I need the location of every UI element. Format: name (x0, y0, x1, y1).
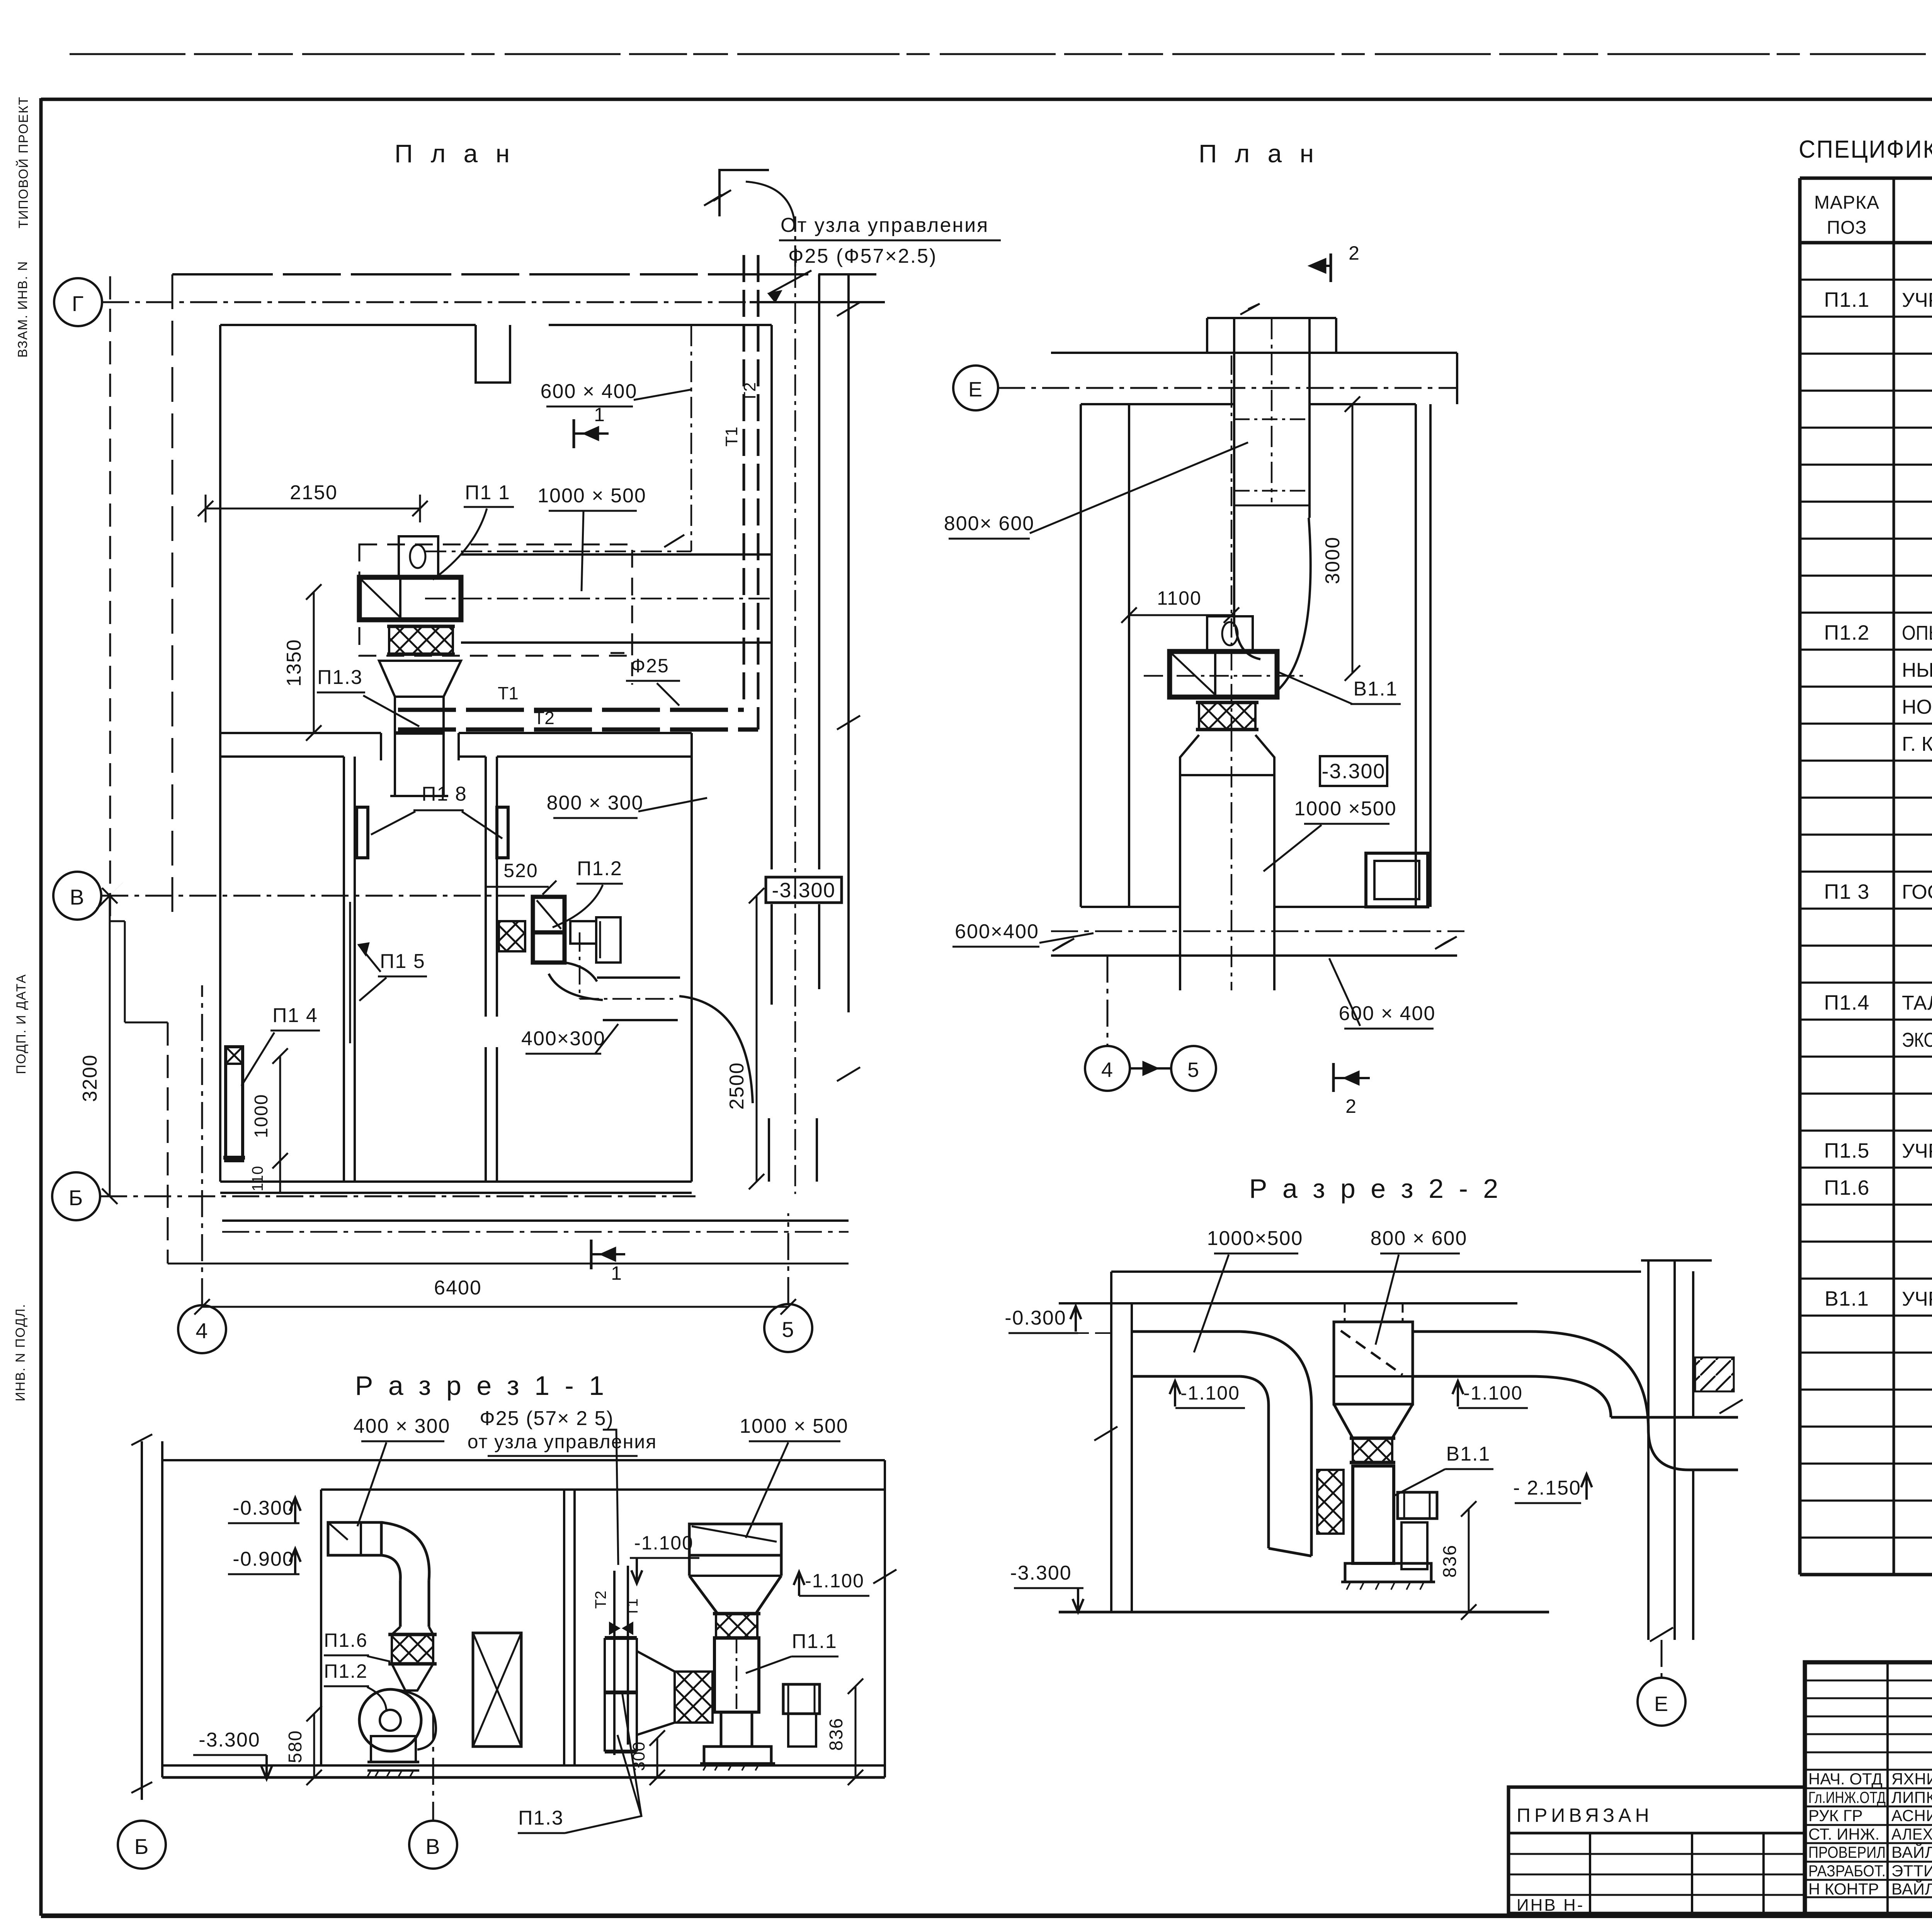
right duct run razrez2 (1413, 1330, 1530, 1333)
svg-text:В: В (425, 1834, 440, 1859)
svg-text:-0.300: -0.300 (1005, 1307, 1066, 1329)
svg-text:П1 8: П1 8 (422, 783, 467, 805)
svg-text:УЧРЕЖДЕНИЕ УЮ-400/4: УЧРЕЖДЕНИЕ УЮ-400/4 (1902, 289, 1932, 311)
svg-text:-1.100: -1.100 (634, 1532, 694, 1554)
flex hatched left of fan razrez2 (1317, 1470, 1344, 1534)
right elbow S razrez2 (1530, 1332, 1648, 1430)
svg-text:1000 × 500: 1000 × 500 (537, 485, 646, 507)
svg-text:Г: Г (72, 291, 84, 316)
sump box plan2 (1366, 853, 1428, 907)
axis 5 circle plan (764, 1304, 812, 1352)
right wall shaft razrez2 (1647, 1260, 1650, 1640)
heater box with X razrez (473, 1633, 521, 1747)
dim 300 (656, 1738, 658, 1777)
flex above fan razrez2 (1353, 1438, 1392, 1463)
axis E line plan (998, 387, 1457, 389)
svg-text:ВАЙЛЬ: ВАЙЛЬ (1891, 1843, 1932, 1861)
svg-text:МАРКА: МАРКА (1814, 192, 1879, 213)
fan P1.1 lower box (721, 1712, 752, 1747)
sheet frame (39, 98, 43, 1916)
svg-text:П1 4: П1 4 (272, 1004, 318, 1027)
fan V1.1 flex hatched plan (1199, 702, 1255, 730)
svg-text:П1.2: П1.2 (577, 857, 622, 880)
fan P1.2 scroll (359, 1689, 421, 1751)
svg-text:Т1: Т1 (498, 683, 519, 703)
svg-text:5: 5 (1187, 1058, 1200, 1082)
P1.2 discharge elbow 400x300 (565, 963, 597, 981)
svg-text:ТАЛДЫ-КУРГАНСКИЙ: ТАЛДЫ-КУРГАНСКИЙ (1902, 992, 1932, 1014)
svg-text:РУК ГР: РУК ГР (1808, 1806, 1863, 1825)
duct to control node elbow above wall (794, 216, 796, 267)
axis V circle razrez (409, 1821, 457, 1869)
svg-text:НАЧ. ОТД: НАЧ. ОТД (1808, 1770, 1883, 1788)
fan P1.1 box razrez (714, 1638, 759, 1712)
dim 836 razrez1 (855, 1686, 857, 1777)
svg-text:-1.100: -1.100 (805, 1570, 864, 1592)
svg-text:Т1: Т1 (722, 427, 741, 446)
svg-text:3200: 3200 (79, 1054, 101, 1102)
dim 2500 (756, 896, 758, 1182)
duct 400x300 east from P1.2 (597, 976, 680, 979)
svg-text:АСНИНА: АСНИНА (1891, 1806, 1932, 1825)
svg-text:П1.4: П1.4 (1824, 991, 1870, 1014)
section mark 2 top (1330, 253, 1332, 282)
damper P1.4 (226, 1047, 243, 1161)
svg-text:ТИПОВОЙ ПРОЕКТ: ТИПОВОЙ ПРОЕКТ (16, 96, 31, 228)
drop duct razrez2 (1267, 1405, 1270, 1548)
svg-text:П1.2: П1.2 (1824, 621, 1870, 645)
T1 T2 riser pipes (743, 255, 745, 707)
svg-text:В: В (70, 885, 85, 909)
axis 5 line plan (787, 1213, 789, 1304)
level -3.300 boxed (1320, 756, 1387, 786)
svg-text:ЛИПКИНД: ЛИПКИНД (1891, 1788, 1932, 1806)
interior wall 1 (343, 757, 345, 1182)
P1.1 hopper razrez (689, 1524, 781, 1555)
outer wall dash line (172, 274, 173, 921)
svg-text:ЭТТИНГЕР: ЭТТИНГЕР (1891, 1862, 1932, 1880)
axis 4 circle plan2 (1085, 1046, 1130, 1091)
partition duct opening jambs (380, 733, 382, 760)
svg-text:Е: Е (968, 378, 983, 401)
grille P1.8 on wall1 (357, 807, 368, 858)
axis G circle (54, 278, 102, 326)
svg-text:1: 1 (594, 404, 605, 425)
T1 T2 risers razrez (613, 1571, 616, 1755)
dim 1350 (313, 592, 315, 733)
elbow arc to shaft (679, 996, 753, 1103)
dim 2150 (206, 508, 420, 510)
fan P1.1 base razrez (704, 1747, 771, 1764)
section mark 2 bottom (1332, 1063, 1335, 1092)
top perforation dashed line (70, 53, 1932, 55)
P1.1 flex hatched razrez (716, 1614, 757, 1638)
svg-text:П1.1: П1.1 (792, 1630, 837, 1653)
fan P1.1 transition (379, 661, 461, 697)
grille P1.8 on wall2 (497, 807, 508, 858)
svg-text:От узла управления: От узла управления (781, 214, 989, 236)
axis B circle razrez bottom (118, 1821, 166, 1869)
svg-text:1350: 1350 (283, 639, 305, 687)
svg-text:ОПЫТНО-ЭКСПЕРИМЕНТАЛЬ-: ОПЫТНО-ЭКСПЕРИМЕНТАЛЬ- (1902, 622, 1932, 645)
P1.2 inlet cone (392, 1664, 433, 1690)
svg-text:ГОСТ 7201-80*: ГОСТ 7201-80* (1902, 881, 1932, 903)
middle plan right wall (1415, 404, 1417, 907)
P1.2 exhaust elbow (381, 1522, 429, 1580)
axis E circle razrez2 (1638, 1678, 1685, 1726)
svg-text:ВАЙЛЬ: ВАЙЛЬ (1891, 1879, 1932, 1898)
shaft elbow to fan (1236, 627, 1260, 659)
suction duct razrez2 (1132, 1330, 1240, 1333)
axis V line razrez (432, 1714, 434, 1821)
svg-text:-1.100: -1.100 (1180, 1382, 1240, 1404)
T2 pipe horizontal (398, 728, 758, 732)
svg-text:400 × 300: 400 × 300 (354, 1415, 451, 1437)
svg-text:от узла управления: от узла управления (468, 1431, 657, 1452)
top wall inner face (220, 324, 476, 326)
wall niche (476, 325, 510, 383)
P1.1 hopper cone (689, 1576, 781, 1614)
fan P1.1 flex connector hatched (389, 626, 453, 654)
duct east of P1.1 1000x500 (461, 553, 772, 556)
P1.6 flex hatched razrez (392, 1634, 433, 1664)
right boundary break razrez (884, 1460, 886, 1777)
svg-text:520: 520 (503, 860, 538, 881)
dim 580 (313, 1714, 315, 1777)
svg-text:Гл.ИНЖ.ОТД: Гл.ИНЖ.ОТД (1808, 1788, 1886, 1806)
left wall axis B razrez (141, 1441, 143, 1800)
svg-text:Б: Б (134, 1834, 150, 1859)
top wall outer line (172, 273, 885, 276)
svg-text:836: 836 (1440, 1544, 1460, 1578)
svg-text:2500: 2500 (726, 1062, 748, 1110)
svg-text:Б: Б (69, 1185, 84, 1210)
svg-text:2: 2 (1345, 1095, 1357, 1117)
svg-text:-3.300: -3.300 (199, 1729, 260, 1751)
svg-text:ЭКСПЕРИМЕНТАЛЬНЫЙ ЗАВОД: ЭКСПЕРИМЕНТАЛЬНЫЙ ЗАВОД (1902, 1029, 1932, 1051)
dashed service zone around P1.1 (359, 544, 632, 656)
svg-text:Е: Е (1654, 1692, 1669, 1716)
fan P1.2 motor (570, 921, 596, 944)
svg-text:6400: 6400 (434, 1277, 482, 1299)
axis V circle (53, 872, 101, 920)
svg-text:Т2: Т2 (592, 1591, 609, 1609)
hopper cone razrez2 (1334, 1404, 1413, 1438)
svg-text:ИНВ Н-: ИНВ Н- (1517, 1896, 1584, 1915)
dim 1000 (279, 1056, 281, 1161)
svg-text:2: 2 (1349, 242, 1360, 264)
top-right wall segment (750, 301, 885, 303)
dim 3000 (1352, 404, 1354, 673)
svg-text:1000 × 500: 1000 × 500 (740, 1415, 849, 1437)
svg-text:-3.300: -3.300 (1010, 1562, 1071, 1584)
svg-text:УЧРЕЖДЕНИЕ УЮ-400/4: УЧРЕЖДЕНИЕ УЮ-400/4 (1902, 1288, 1932, 1310)
svg-text:П1.6: П1.6 (1824, 1176, 1870, 1199)
svg-text:Ф25 (57× 2 5): Ф25 (57× 2 5) (480, 1407, 614, 1430)
razrez floor (162, 1764, 885, 1767)
svg-text:ПОЗ: ПОЗ (1827, 218, 1867, 238)
svg-text:800× 600: 800× 600 (944, 512, 1034, 535)
svg-text:СТ. ИНЖ.: СТ. ИНЖ. (1808, 1825, 1879, 1843)
svg-text:-3.300: -3.300 (772, 879, 835, 902)
svg-text:П1.6: П1.6 (324, 1629, 367, 1651)
svg-text:600 × 400: 600 × 400 (541, 380, 638, 403)
P1.1 motor razrez (783, 1684, 820, 1714)
fan unit P1.1 fan box (359, 577, 461, 620)
svg-text:В1.1: В1.1 (1446, 1443, 1491, 1465)
svg-text:П1 5: П1 5 (380, 950, 425, 973)
duct 400x300 centerline (579, 932, 581, 999)
svg-text:В1.1: В1.1 (1825, 1287, 1869, 1310)
partition wall below upper room (220, 732, 381, 734)
dim 836 razrez2 (1468, 1509, 1470, 1612)
razrez ceiling (162, 1459, 885, 1461)
motor razrez2 (1398, 1492, 1437, 1519)
axis 4 circle plan (178, 1305, 226, 1353)
svg-text:Т1: Т1 (624, 1599, 641, 1617)
svg-text:П1.5: П1.5 (1824, 1139, 1870, 1162)
svg-text:400×300: 400×300 (521, 1027, 605, 1050)
duct south from P1.1 (394, 697, 396, 796)
svg-text:УЧРЕЖДЕНИЕ УС-319/56*: УЧРЕЖДЕНИЕ УС-319/56* (1902, 1140, 1932, 1162)
svg-text:Г. КИЕВ: Г. КИЕВ (1902, 733, 1932, 755)
svg-text:П1.2: П1.2 (324, 1660, 367, 1682)
duct 600x400 centerline horizontal (425, 551, 691, 553)
svg-text:1000×500: 1000×500 (1207, 1227, 1303, 1250)
level -3.300 plan1 boxed (766, 877, 842, 903)
corridor lines (222, 1219, 849, 1222)
masonry hatch patch razrez2 (1695, 1357, 1734, 1391)
svg-text:-0.300: -0.300 (233, 1497, 294, 1519)
fan P1.2 base (371, 1736, 416, 1762)
lower horizontal duct razrez2 (1611, 1416, 1738, 1419)
svg-text:СПЕЦИФИКАЦИЯ ОТОПИТЕЛЬНО-ВЕНТ: СПЕЦИФИКАЦИЯ ОТОПИТЕЛЬНО-ВЕНТИЛЯЦИОННЫХ … (1799, 135, 1932, 163)
middle wall razrez (563, 1490, 565, 1765)
razrez2 ceiling (1111, 1270, 1641, 1273)
break marks right duct razrez2 (1719, 1400, 1743, 1413)
bottom wall of rooms (220, 1180, 692, 1183)
right outer wall (847, 274, 850, 1012)
svg-text:5: 5 (782, 1317, 794, 1342)
razrez2 floor (1059, 1611, 1549, 1614)
svg-text:-3.300: -3.300 (1321, 760, 1385, 783)
svg-text:110: 110 (249, 1166, 266, 1192)
svg-text:800 × 600: 800 × 600 (1371, 1227, 1468, 1250)
fan P1.2 flex hatched (499, 921, 525, 951)
svg-text:-1.100: -1.100 (1463, 1382, 1523, 1404)
section mark 1 upper (573, 419, 575, 448)
svg-text:Т2: Т2 (534, 708, 554, 728)
fan P1.2 scroll box (533, 897, 565, 932)
dim 3200 vertical (109, 896, 111, 1196)
exhaust shaft 800x600 (1233, 353, 1235, 627)
svg-text:Т2: Т2 (740, 382, 759, 402)
fan V1.1 box plan (1170, 651, 1277, 697)
fan V1.1 motor box plan (1207, 616, 1253, 651)
P1.2 vertical duct (399, 1580, 402, 1627)
svg-text:В1.1: В1.1 (1354, 678, 1398, 700)
svg-text:1: 1 (611, 1262, 622, 1284)
svg-text:1100: 1100 (1157, 587, 1202, 609)
svg-text:П1 1: П1 1 (465, 481, 510, 504)
axis G line (102, 301, 885, 303)
interior wall 2 (485, 757, 487, 1017)
shaft centerline (794, 267, 796, 1194)
fan V1.1 axis dashdot (1144, 675, 1306, 677)
middle plan bottom wall (1081, 906, 1180, 908)
svg-text:Н КОНТР: Н КОНТР (1808, 1880, 1879, 1898)
left boundary dashed (109, 276, 111, 921)
svg-text:П1 3: П1 3 (1824, 880, 1870, 903)
suction duct elbow down (1240, 1332, 1311, 1405)
axis B circle (52, 1172, 100, 1220)
fan unit P1.1 motor box (399, 536, 438, 577)
duct box P1.2 exhaust top (328, 1522, 381, 1555)
axis 5 circle plan2 with arrow (1171, 1046, 1216, 1091)
svg-text:ПРОВЕРИЛ: ПРОВЕРИЛ (1808, 1843, 1886, 1861)
fan V1.1 box razrez2 (1353, 1466, 1394, 1563)
svg-text:Ф25: Ф25 (631, 655, 669, 677)
svg-text:П л а н: П л а н (1199, 139, 1319, 168)
svg-text:4: 4 (196, 1318, 208, 1343)
spec table grid (1800, 177, 1932, 180)
filter hatched razrez (675, 1672, 713, 1723)
svg-text:4: 4 (1101, 1058, 1114, 1082)
svg-text:П л а н: П л а н (395, 139, 515, 168)
middle plan left wall (1080, 404, 1082, 907)
shaft box razrez2 (1334, 1322, 1413, 1404)
svg-text:РАЗРАБОТ.: РАЗРАБОТ. (1808, 1862, 1886, 1880)
svg-text:600×400: 600×400 (955, 920, 1039, 943)
axis 4 line plan (201, 985, 203, 1305)
shaft stubs above wall (1206, 318, 1208, 353)
vertical duct 600x400 shaft (770, 325, 773, 869)
razrez2 left wall (1110, 1272, 1112, 1612)
svg-text:П1.3: П1.3 (518, 1807, 564, 1829)
svg-text:- 2.150: - 2.150 (1513, 1477, 1581, 1499)
left wall inner face (219, 325, 221, 1182)
P1.1 inlet cone razrez (637, 1651, 675, 1735)
T1 pipe horizontal (398, 708, 744, 712)
privyazan table (1509, 1787, 1805, 1913)
svg-text:300: 300 (629, 1742, 648, 1771)
svg-text:ВЗАМ. ИНВ. N: ВЗАМ. ИНВ. N (15, 260, 30, 357)
axis B line (100, 1196, 696, 1197)
middle plan top wall (1051, 352, 1457, 354)
dim 6400 horizontal (202, 1306, 788, 1308)
svg-text:-0.900: -0.900 (233, 1548, 294, 1570)
svg-text:Р а з р е з 2 - 2: Р а з р е з 2 - 2 (1249, 1173, 1502, 1204)
svg-text:АЛЕХНОВИЧ: АЛЕХНОВИЧ (1891, 1825, 1932, 1843)
svg-text:600 × 400: 600 × 400 (1339, 1002, 1436, 1025)
svg-text:П1.1: П1.1 (1824, 288, 1870, 311)
fan base razrez2 (1345, 1563, 1431, 1582)
shaft centerline (1271, 318, 1273, 502)
svg-text:1000 ×500: 1000 ×500 (1294, 798, 1396, 820)
svg-text:Ф25 (Ф57×2.5): Ф25 (Ф57×2.5) (788, 245, 937, 267)
axis E circle plan (953, 366, 998, 410)
duct south from V1.1 (1180, 735, 1199, 990)
svg-text:ИНВ. N ПОДЛ.: ИНВ. N ПОДЛ. (13, 1303, 28, 1401)
svg-text:2150: 2150 (290, 481, 338, 504)
axis V line (101, 895, 564, 897)
section mark 1 lower (590, 1240, 593, 1269)
shaft joint marks (1234, 418, 1310, 420)
duct 600x400 centerline vertical (690, 325, 692, 551)
svg-text:НОГО ОБОРУДОВАНИЯ: НОГО ОБОРУДОВАНИЯ (1902, 696, 1932, 718)
svg-text:800 × 300: 800 × 300 (547, 792, 644, 814)
svg-text:ПРИВЯЗАН: ПРИВЯЗАН (1517, 1804, 1653, 1826)
svg-text:1000: 1000 (251, 1094, 272, 1138)
right outer wall break marks (837, 302, 860, 316)
title block outer box (1805, 1662, 1932, 1914)
svg-text:П1.3: П1.3 (317, 666, 363, 689)
svg-text:ЯХНИС: ЯХНИС (1891, 1770, 1932, 1788)
svg-text:ПОДП. И ДАТА: ПОДП. И ДАТА (14, 974, 29, 1074)
svg-text:580: 580 (285, 1730, 306, 1763)
svg-text:НЫЙ ЗАВОД НЕСТАНДАРТ-: НЫЙ ЗАВОД НЕСТАНДАРТ- (1902, 658, 1932, 681)
P1.3 heater channel razrez (604, 1638, 606, 1752)
svg-text:Р а з р е з 1 - 1: Р а з р е з 1 - 1 (355, 1371, 608, 1401)
left room wall razrez (320, 1490, 322, 1765)
filter P1.5 strip on left wall (349, 902, 351, 1043)
svg-text:836: 836 (826, 1718, 847, 1751)
svg-text:3000: 3000 (1321, 536, 1344, 584)
